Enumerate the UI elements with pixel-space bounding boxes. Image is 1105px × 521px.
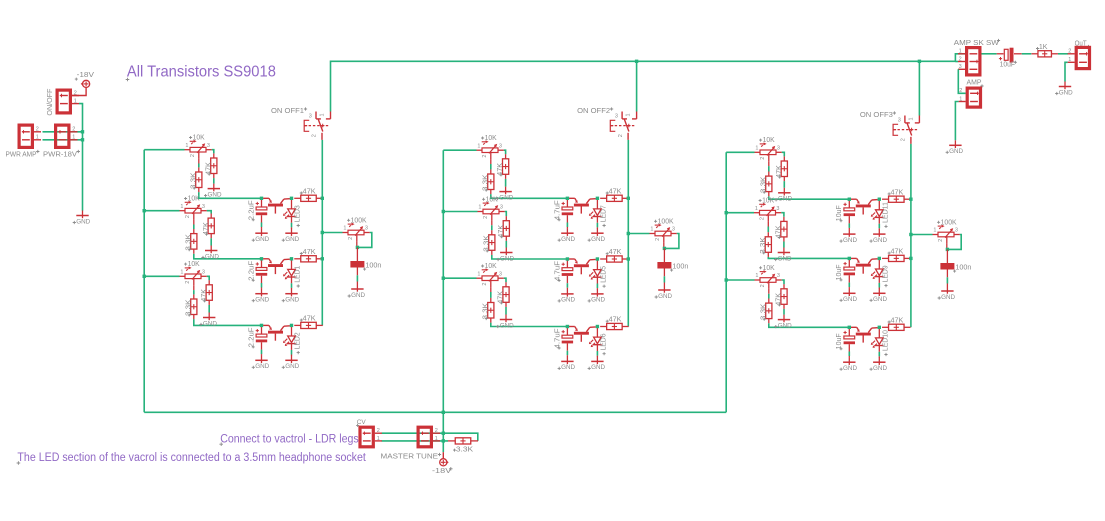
svg-text:2: 2: [348, 237, 354, 240]
svg-text:GND: GND: [255, 297, 269, 304]
svg-text:3.3K: 3.3K: [760, 303, 767, 320]
svg-text:GND: GND: [500, 322, 514, 329]
ground block1 row2 47K: [201, 246, 219, 261]
svg-text:ON OFF2: ON OFF2: [577, 108, 610, 115]
svg-text:GND: GND: [941, 294, 955, 301]
wire block3 row1 47K to ground: [783, 181, 785, 188]
wire OUT pin1 to ground: [1065, 62, 1068, 81]
svg-text:2: 2: [1068, 49, 1071, 55]
junction block2 left bus row2: [442, 210, 445, 213]
wire AMP SK SW pin1 to 10uF: [982, 53, 997, 55]
ground (left power): [73, 211, 91, 226]
wire block1 row2 wiper to 3.3K: [193, 220, 195, 225]
svg-text:3.3K: 3.3K: [456, 446, 474, 453]
svg-text:GND: GND: [255, 363, 269, 370]
wire block2 row2 wiper to 3.3K: [491, 220, 493, 225]
svg-text:47K: 47K: [891, 317, 904, 324]
ground block1 row3 47K: [199, 313, 217, 328]
resistor 47K load block1 row2: [294, 249, 323, 262]
ground block1 row2 LED: [282, 289, 300, 304]
capacitor 2.2uF block1 row2: [248, 259, 267, 289]
wire 10uF to 1K: [1022, 53, 1032, 55]
wire block3 bus to 100K pot: [911, 234, 933, 236]
junction block1 row1 collector node: [290, 197, 293, 200]
ground block2 row2 47K: [497, 248, 515, 263]
switch ON OFF1: [304, 112, 330, 140]
svg-text:GND: GND: [76, 218, 90, 225]
svg-text:47K: 47K: [498, 224, 505, 237]
wire block1 row2 3.3K to emitter node: [194, 254, 262, 259]
capacitor 10uF block3 row1: [836, 199, 855, 229]
svg-text:-18V: -18V: [432, 468, 452, 475]
transistor SS9018 block3 row1: [851, 199, 878, 214]
svg-text:GND: GND: [591, 364, 605, 371]
capacitor 10uF (output): [997, 48, 1022, 69]
svg-text:LED1: LED1: [295, 266, 302, 283]
connector MASTER TUNE: [418, 427, 440, 447]
svg-text:2: 2: [435, 428, 438, 434]
svg-text:LED3: LED3: [295, 205, 302, 222]
svg-text:10uF: 10uF: [836, 205, 843, 221]
junction block3 left bus row2: [725, 211, 728, 214]
svg-text:GND: GND: [778, 255, 792, 262]
ground block1 row1 47K: [204, 184, 222, 199]
wire PWR AMP pin2 to PWR-18V pin2 node: [43, 131, 83, 133]
wire block1 right bus: [321, 140, 323, 326]
junction block2 right bus row2: [627, 257, 630, 260]
svg-text:2: 2: [938, 239, 944, 242]
wire block1 row3 bus to pot pin1: [144, 275, 179, 277]
LED LED5 block2 row2: [589, 259, 608, 289]
svg-text:3: 3: [207, 143, 210, 149]
junction block2 row1 collector node: [596, 197, 599, 200]
svg-text:1: 1: [478, 205, 481, 211]
wire switch3 drop: [918, 61, 920, 115]
svg-text:CV: CV: [357, 419, 367, 426]
svg-text:1: 1: [477, 143, 480, 149]
svg-text:GND: GND: [285, 363, 299, 370]
transistor SS9018 block2 row2: [569, 259, 596, 274]
resistor 47K block1 row1: [205, 153, 217, 178]
junction block2 100K wiper node: [663, 247, 666, 250]
junction block1 right bus to 100K branch: [321, 231, 324, 234]
svg-text:2: 2: [74, 90, 77, 96]
ground block2 row3 capacitor: [558, 356, 576, 371]
svg-text:3: 3: [202, 269, 205, 275]
svg-text:1: 1: [435, 436, 438, 442]
wire block1 100K pin3 wrap: [357, 233, 371, 248]
svg-text:3: 3: [499, 143, 502, 149]
svg-text:47K: 47K: [609, 317, 622, 324]
transistor SS9018 block3 row3: [851, 327, 878, 342]
junction block1 row2 emitter node: [260, 257, 263, 260]
ground block1 row1 capacitor: [252, 228, 270, 243]
svg-text:LED9: LED9: [882, 265, 889, 282]
svg-text:1: 1: [343, 226, 346, 232]
wire block1 row3 pot pin3 to 47K: [207, 276, 210, 280]
svg-text:2: 2: [185, 281, 191, 284]
svg-text:2: 2: [901, 138, 907, 141]
svg-text:GND: GND: [561, 236, 575, 243]
svg-text:47K: 47K: [891, 189, 904, 196]
capacitor 10uF block3 row2: [836, 258, 855, 288]
junction rail to switch2: [635, 60, 638, 63]
junction block3 right bus to 100K branch: [909, 233, 912, 236]
wire block1 bus to 100K pot: [322, 232, 342, 234]
junction block3 row3 collector node: [878, 326, 881, 329]
ground block2 row3 LED: [588, 356, 606, 371]
transistor SS9018 block2 row1: [569, 198, 596, 213]
wire block2 row1 47K to ground: [505, 179, 507, 187]
svg-text:3: 3: [309, 113, 312, 119]
resistor 47K load block1 row3: [294, 316, 323, 329]
wire block1 left bus: [143, 150, 145, 413]
transistor SS9018 block1 row1: [263, 198, 290, 213]
ground block3 100n: [938, 286, 956, 301]
connector CV: [360, 427, 382, 447]
svg-text:1: 1: [755, 145, 758, 151]
ground block1 row3 LED: [282, 355, 300, 370]
svg-text:LED7: LED7: [601, 205, 608, 222]
svg-text:1: 1: [36, 135, 39, 141]
ground block1 row1 LED: [282, 228, 300, 243]
svg-text:1K: 1K: [1039, 44, 1048, 51]
ground block1 row3 capacitor: [252, 355, 270, 370]
power -18V supply bottom: [432, 459, 453, 475]
svg-text:1: 1: [1068, 57, 1071, 63]
svg-text:3: 3: [615, 113, 618, 119]
svg-text:1: 1: [908, 117, 914, 120]
ground block3 row2 47K: [774, 248, 792, 263]
wire CV pin2 to node and wrap: [382, 433, 478, 441]
svg-text:1: 1: [377, 436, 380, 442]
svg-text:10uF: 10uF: [836, 264, 843, 280]
junction bottom rail / block2 bus / CV node: [442, 411, 445, 414]
wire block3 row2 3.3K to emitter node: [768, 257, 849, 259]
wire block2 bus to 100K pot: [628, 233, 649, 235]
ground block2 row2 LED: [588, 289, 606, 304]
note line 2 origin cross: [17, 461, 21, 465]
svg-text:3.3K: 3.3K: [185, 299, 192, 316]
svg-text:47K: 47K: [205, 162, 212, 175]
capacitor 4.7uF block2 row1: [554, 198, 573, 228]
svg-text:10K: 10K: [486, 196, 498, 203]
junction block1 row2 collector node: [290, 257, 293, 260]
transistor SS9018 block1 row3: [263, 325, 290, 340]
svg-text:3.3K: 3.3K: [185, 234, 192, 251]
svg-text:1: 1: [755, 206, 758, 212]
svg-text:47K: 47K: [303, 316, 316, 323]
ground block2 100n: [655, 285, 673, 300]
potentiometer 10K block2 row1: [477, 135, 504, 159]
svg-text:4.7uF: 4.7uF: [554, 200, 561, 220]
svg-text:GND: GND: [561, 364, 575, 371]
label AMP origin cross: [980, 84, 983, 87]
svg-text:100K: 100K: [941, 219, 957, 226]
LED LED6 block2 row3: [589, 327, 608, 357]
wire top supply rail: [331, 54, 966, 112]
ground (OUT): [1055, 82, 1073, 97]
wire block3 100K pin3 wrap: [947, 235, 961, 250]
svg-text:GND: GND: [255, 236, 269, 243]
wire block3 row2 bus to pot pin1: [726, 212, 754, 214]
svg-text:47K: 47K: [776, 165, 783, 178]
connector OUT: [1068, 47, 1090, 68]
svg-text:47K: 47K: [498, 291, 505, 304]
svg-text:Connect to vactrol - LDR legs: Connect to vactrol - LDR legs: [220, 433, 359, 445]
ground block3 row1 capacitor: [840, 229, 858, 244]
svg-text:GND: GND: [1059, 89, 1073, 96]
resistor 47K load block3 row3: [882, 317, 911, 330]
svg-text:47K: 47K: [201, 289, 208, 302]
ground block2 row1 LED: [588, 228, 606, 243]
transistor SS9018 block2 row3: [569, 327, 596, 342]
svg-text:3: 3: [365, 226, 368, 232]
ground block3 row2 LED: [870, 288, 888, 303]
svg-text:2: 2: [482, 283, 488, 286]
svg-text:1: 1: [959, 96, 962, 102]
potentiometer 100K block2: [650, 218, 677, 242]
wire block1 row2 bus to pot pin1: [144, 210, 179, 212]
resistor 47K load block1 row1: [294, 188, 323, 201]
wire block3 left bus: [725, 152, 727, 412]
connector ON/OFF: [57, 90, 79, 113]
svg-text:47K: 47K: [891, 249, 904, 256]
svg-text:1: 1: [185, 143, 188, 149]
svg-text:4.7uF: 4.7uF: [554, 329, 561, 349]
wire block2 row1 3.3K to emitter node: [491, 194, 568, 198]
resistor 3.3K block1 row3: [185, 294, 197, 319]
wire block1 row2 47K to ground: [210, 238, 212, 245]
svg-text:ON OFF3: ON OFF3: [860, 112, 893, 119]
svg-text:GND: GND: [873, 296, 887, 303]
wire block2 row3 3.3K to emitter node: [491, 323, 568, 327]
svg-text:GND: GND: [949, 148, 963, 155]
potentiometer 10K block3 row3: [755, 265, 782, 289]
ground block3 row3 capacitor: [840, 357, 858, 372]
junction rail to switch3: [918, 60, 921, 63]
wire block1 row1 wiper to 3.3K: [198, 159, 200, 164]
svg-text:2: 2: [618, 134, 624, 137]
wire bottom rail: [144, 411, 726, 413]
wire block2 row2 47K to ground: [505, 241, 507, 248]
resistor 47K block2 row2: [498, 216, 510, 241]
resistor 3.3K block3 row3: [760, 299, 772, 324]
junction CV pin1 node: [442, 439, 445, 442]
switch ON OFF3: [893, 116, 919, 144]
wire block2 wiper down: [663, 242, 665, 248]
ground block3 row2 capacitor: [840, 288, 858, 303]
potentiometer 100K block1: [343, 217, 370, 241]
svg-text:3.3K: 3.3K: [190, 172, 197, 189]
svg-text:2: 2: [760, 157, 766, 160]
wire block1 row1 bus to pot pin1: [144, 149, 184, 151]
potentiometer 100K block3: [933, 219, 960, 243]
wire block2 row3 wiper to 3.3K: [490, 287, 492, 292]
resistor 3.3K block3 row2: [760, 232, 772, 257]
junction block1 row3 collector node: [290, 324, 293, 327]
svg-text:ON/OFF: ON/OFF: [47, 89, 54, 116]
svg-text:47K: 47K: [303, 249, 316, 256]
potentiometer 10K block1 row1: [185, 135, 212, 159]
connector AMP SK SW: [958, 48, 980, 75]
svg-text:GND: GND: [205, 253, 219, 260]
svg-text:GND: GND: [561, 297, 575, 304]
ground block2 row3 47K: [496, 315, 514, 330]
junction block2 row2 collector node: [596, 257, 599, 260]
resistor 47K load block2 row1: [600, 188, 629, 201]
capacitor 100n block3: [940, 249, 971, 286]
svg-text:3.3K: 3.3K: [482, 303, 489, 320]
svg-text:47K: 47K: [609, 188, 622, 195]
wire PWR AMP pin1 to PWR-18V pin1 node: [43, 139, 83, 141]
junction pin2 node: [81, 130, 84, 133]
LED LED3 block1 row1: [283, 198, 302, 228]
wire block2 row2 pot pin3 to 47K: [505, 212, 507, 217]
svg-text:3: 3: [500, 205, 503, 211]
svg-text:GND: GND: [658, 293, 672, 300]
svg-text:2: 2: [36, 127, 39, 133]
svg-text:3.3K: 3.3K: [482, 174, 489, 191]
svg-text:10K: 10K: [763, 137, 775, 144]
resistor 47K load block2 row2: [600, 249, 629, 262]
svg-text:2: 2: [760, 217, 766, 220]
svg-text:GND: GND: [499, 194, 513, 201]
transistor SS9018 block3 row2: [851, 258, 878, 273]
LED LED7 block2 row1: [589, 198, 608, 228]
ground block3 row1 47K: [775, 188, 793, 203]
junction block1 left bus row3: [143, 275, 146, 278]
LED LED11 block3 row1: [871, 199, 890, 229]
wire CV node drop: [442, 412, 444, 441]
label PWR-18V origin cross: [77, 150, 80, 153]
svg-text:3: 3: [777, 145, 780, 151]
wire block2 row3 47K to ground: [505, 307, 507, 315]
svg-text:2: 2: [377, 428, 380, 434]
wire block3 row2 wiper to 3.3K: [767, 222, 769, 227]
svg-text:2: 2: [959, 56, 962, 62]
wire block2 left bus: [442, 150, 444, 412]
svg-text:47K: 47K: [776, 225, 783, 238]
junction block2 right bus to 100K branch: [627, 232, 630, 235]
capacitor 100n block2: [657, 248, 688, 285]
wire switch2 drop: [636, 61, 638, 111]
svg-text:LED5: LED5: [601, 266, 608, 283]
wire block1 row2 pot pin3 to 47K: [207, 211, 212, 214]
potentiometer 10K block2 row2: [478, 196, 505, 220]
wire block1 row1 47K to ground: [213, 178, 215, 184]
LED LED1 block1 row2: [283, 259, 302, 289]
svg-text:2: 2: [72, 127, 75, 133]
svg-text:100n: 100n: [955, 265, 971, 272]
svg-text:2: 2: [185, 215, 191, 218]
svg-text:The LED section of the vacrol: The LED section of the vacrol is connect…: [17, 452, 366, 464]
LED LED2 block1 row3: [283, 325, 302, 355]
resistor 3.3K block2 row2: [483, 230, 495, 255]
svg-text:1: 1: [180, 269, 183, 275]
wire block2 right bus: [627, 140, 629, 327]
power -18V supply top: [75, 72, 95, 88]
junction block1 100K wiper node: [356, 246, 359, 249]
svg-text:1: 1: [959, 49, 962, 55]
resistor 47K block2 row1: [497, 154, 509, 179]
title origin cross: [126, 78, 130, 82]
svg-text:1: 1: [72, 135, 75, 141]
svg-text:All Transistors SS9018: All Transistors SS9018: [127, 64, 276, 81]
svg-text:GND: GND: [591, 297, 605, 304]
wire AMP SK SW pin3 to AMP pin2: [958, 69, 965, 93]
wire block2 row3 pot pin3 to 47K: [504, 278, 506, 282]
wire block3 row3 bus to pot pin1: [726, 279, 754, 281]
resistor 47K block1 row2: [203, 214, 215, 239]
wire AMP pin1 to ground: [955, 102, 958, 141]
svg-text:GND: GND: [873, 365, 887, 372]
svg-text:10K: 10K: [193, 135, 205, 142]
switch ON OFF2: [610, 112, 636, 140]
svg-text:3: 3: [898, 117, 901, 123]
wire ON/OFF pin2 to -18V supply: [72, 88, 87, 96]
wire CV node to -18V supply: [442, 441, 444, 452]
wire block3 row3 wiper to 3.3K: [768, 289, 770, 294]
ground block3 row3 47K: [774, 315, 792, 330]
resistor 1K output: [1031, 44, 1058, 57]
ground block2 row1 capacitor: [558, 228, 576, 243]
svg-text:10K: 10K: [188, 261, 200, 268]
svg-text:3: 3: [776, 206, 779, 212]
potentiometer 10K block1 row3: [180, 261, 207, 285]
wire block1 row1 pot pin3 to 47K: [212, 150, 214, 154]
wire block3 row1 3.3K to emitter node: [769, 196, 850, 199]
resistor 3.3K block2 row1: [482, 169, 494, 194]
capacitor 10uF block3 row3: [836, 327, 855, 357]
junction block2 right bus row1: [627, 197, 630, 200]
svg-text:GND: GND: [203, 320, 217, 327]
connector PWR AMP: [19, 125, 41, 147]
svg-text:1: 1: [74, 99, 77, 105]
svg-text:GND: GND: [285, 236, 299, 243]
svg-text:2: 2: [312, 134, 318, 137]
svg-text:GND: GND: [285, 297, 299, 304]
svg-text:2: 2: [483, 216, 489, 219]
svg-text:2: 2: [482, 155, 488, 158]
wire block3 row3 pot pin3 to 47K: [782, 280, 784, 284]
wire block3 row1 wiper to 3.3K: [768, 161, 770, 166]
junction block2 left bus row3: [442, 277, 445, 280]
svg-text:AMP: AMP: [967, 80, 982, 87]
svg-text:MASTER TUNE: MASTER TUNE: [381, 454, 439, 461]
junction block1 left bus row2: [143, 209, 146, 212]
svg-text:10K: 10K: [485, 263, 497, 270]
svg-text:10K: 10K: [763, 265, 775, 272]
junction block3 right bus row1: [909, 198, 912, 201]
svg-text:3.3K: 3.3K: [760, 237, 767, 254]
wire rail stub to AMP SK SW pin2: [955, 61, 958, 63]
svg-text:1: 1: [180, 204, 183, 210]
junction block1 row3 emitter node: [260, 324, 263, 327]
junction block3 row2 emitter node: [848, 257, 851, 260]
svg-text:100K: 100K: [658, 218, 674, 225]
svg-text:1: 1: [650, 227, 653, 233]
svg-text:GND: GND: [208, 191, 222, 198]
connector PWR-18V: [56, 125, 78, 147]
junction block3 100K wiper node: [946, 248, 949, 251]
potentiometer 10K block3 row2: [754, 198, 781, 222]
svg-text:3.3K: 3.3K: [760, 176, 767, 193]
wire block2 row2 3.3K to emitter node: [492, 255, 568, 259]
svg-text:2.2uF: 2.2uF: [248, 200, 255, 220]
resistor 47K block3 row1: [776, 156, 788, 181]
junction CV pin2 node: [442, 432, 445, 435]
